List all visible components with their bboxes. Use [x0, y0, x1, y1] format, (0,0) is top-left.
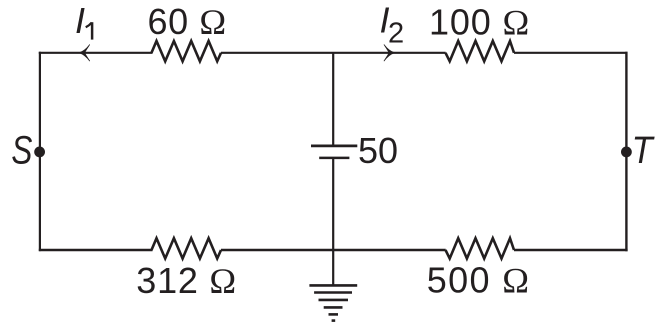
- wire bottom-right segment: [514, 249, 628, 251]
- ground bar 4: [324, 306, 343, 309]
- svg-text:50: 50: [358, 130, 398, 171]
- wire bottom-middle segment: [221, 249, 446, 251]
- wire center branch lower (battery to bottom wire): [332, 158, 334, 250]
- arrowhead I1 direction (left): [79, 45, 89, 61]
- wire ground stem (bottom wire to ground): [332, 250, 334, 285]
- ground bar 1: [309, 284, 357, 287]
- resistor 312 ohm zigzag: [152, 238, 222, 258]
- wire top-left segment: [39, 52, 153, 54]
- arrowhead I2 direction (right): [384, 45, 394, 61]
- svg-text:I: I: [75, 0, 85, 41]
- resistor 100 ohm zigzag: [446, 41, 515, 61]
- battery negative plate (short): [319, 157, 349, 160]
- ground bar 5: [329, 313, 339, 316]
- node T dot: [621, 147, 632, 158]
- ground bar 3: [319, 299, 349, 302]
- resistor 500 ohm zigzag: [446, 238, 515, 258]
- svg-text:100 Ω: 100 Ω: [429, 2, 529, 43]
- wire top-middle segment: [221, 52, 446, 54]
- node S dot: [34, 147, 45, 158]
- ground bar 6 (dot): [332, 319, 336, 322]
- wire left side (S branch): [39, 52, 41, 251]
- svg-text:312 Ω: 312 Ω: [136, 260, 236, 301]
- wire center branch upper (top wire to battery): [332, 53, 334, 146]
- svg-text:500 Ω: 500 Ω: [427, 259, 529, 300]
- wire top-right segment: [514, 52, 628, 54]
- svg-text:S: S: [11, 129, 32, 173]
- svg-text:2: 2: [388, 17, 404, 49]
- ground bar 2: [314, 291, 352, 294]
- svg-text:60 Ω: 60 Ω: [148, 1, 227, 42]
- wire right side (T branch): [625, 52, 627, 251]
- wire bottom-left segment: [39, 249, 153, 251]
- label I1 subscript 1: [91, 22, 94, 39]
- battery positive plate (long): [311, 145, 357, 148]
- svg-text:T: T: [632, 130, 656, 172]
- resistor 60 ohm zigzag: [152, 41, 222, 61]
